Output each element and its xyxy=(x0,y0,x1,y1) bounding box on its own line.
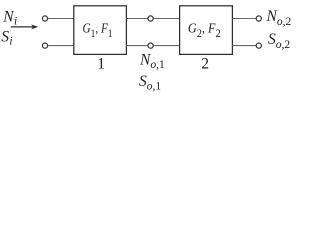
interstage label No,1 xyxy=(139,51,165,71)
wire input top xyxy=(48,18,74,20)
svg-text:So,2: So,2 xyxy=(268,31,290,51)
output label No,2 xyxy=(266,8,292,28)
svg-text:Si: Si xyxy=(1,29,12,48)
amplifier stage box 2 xyxy=(180,6,233,55)
input label Ni xyxy=(2,8,17,27)
output label So,2 xyxy=(268,31,290,51)
wire interstage bottom xyxy=(126,45,179,47)
node interstage top terminal xyxy=(148,16,153,21)
svg-text:So,1: So,1 xyxy=(139,73,161,93)
svg-text:2: 2 xyxy=(201,56,209,73)
node interstage bottom terminal xyxy=(148,43,153,48)
stage 1 value label G1, F1 xyxy=(83,20,113,40)
node input top terminal xyxy=(42,16,47,21)
svg-text:Ni: Ni xyxy=(2,8,17,27)
stage 2 value label G2, F2 xyxy=(188,20,221,41)
wire output bottom xyxy=(232,45,256,47)
node output top terminal xyxy=(256,16,261,21)
wire output top xyxy=(232,18,256,20)
svg-text:No,2: No,2 xyxy=(266,8,292,28)
wire input bottom xyxy=(48,45,74,47)
node input bottom terminal xyxy=(42,43,47,48)
input label Si xyxy=(1,29,12,48)
svg-text:No,1: No,1 xyxy=(139,51,165,71)
interstage label So,1 xyxy=(139,73,161,93)
node output bottom terminal xyxy=(256,43,261,48)
input signal arrow xyxy=(11,24,38,29)
wire interstage top xyxy=(126,18,179,20)
amplifier stage box 1 xyxy=(74,6,127,55)
svg-text:1: 1 xyxy=(97,56,105,73)
